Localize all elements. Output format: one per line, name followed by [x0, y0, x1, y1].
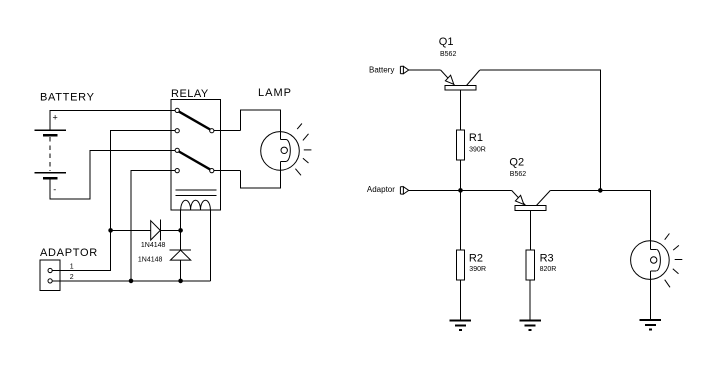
svg-text:Adaptor: Adaptor	[367, 185, 395, 194]
wire relay C2 to lamp	[214, 170, 241, 172]
svg-text:390R: 390R	[469, 147, 486, 154]
wire battery plus to relay T1	[50, 110, 175, 130]
resistor R1	[457, 130, 465, 160]
wire Q1 base / R1 / node	[460, 90, 462, 250]
wire relay C1 to lamp	[214, 130, 241, 132]
ground (R3)	[519, 321, 541, 331]
junction dot rail	[598, 188, 603, 193]
wire lamp LA2 to ground	[649, 271, 651, 320]
svg-text:LAMP: LAMP	[258, 87, 292, 99]
wire Q2 base	[529, 210, 531, 250]
relay K1 box	[171, 100, 221, 210]
ground (R2)	[450, 321, 472, 331]
svg-text:+: +	[53, 113, 58, 123]
resistor R3	[526, 250, 534, 280]
lamp LA2 rays	[665, 234, 683, 288]
lamp LA1 rays	[295, 124, 311, 176]
wire relay T2 to adaptor pin 1	[52, 131, 175, 271]
relay coil	[181, 200, 211, 210]
wire R3 to ground	[529, 280, 531, 321]
wire node to diode D1	[111, 229, 151, 231]
junction dot	[108, 228, 113, 233]
lamp LA2	[631, 241, 670, 280]
resistor R2	[456, 250, 464, 280]
wire battery minus to relay T3	[50, 150, 175, 199]
svg-text:820R: 820R	[540, 266, 557, 273]
wire relay T4 to bottom rail	[131, 171, 175, 281]
relay contact C1	[210, 129, 214, 133]
wire Q2 collector to rail node	[550, 189, 600, 191]
junction dot node adaptor/R1	[458, 188, 463, 193]
svg-text:RELAY: RELAY	[171, 88, 209, 100]
adaptor connector J1	[40, 260, 60, 291]
relay terminal T2	[175, 129, 179, 133]
junction dot	[178, 279, 183, 284]
svg-text:-: -	[53, 185, 56, 195]
svg-text:390R: 390R	[469, 266, 486, 273]
battery BT1	[35, 113, 66, 195]
relay terminal T1	[175, 108, 179, 112]
port symbol Battery	[400, 66, 408, 73]
wire Battery port to Q1 emitter	[409, 69, 441, 71]
svg-text:R2: R2	[469, 253, 483, 265]
relay switch arm 2	[179, 152, 210, 170]
svg-text:R3: R3	[540, 253, 554, 265]
svg-text:Q2: Q2	[509, 157, 524, 169]
svg-text:BATTERY: BATTERY	[40, 92, 95, 104]
wire Q1 collector to right rail	[480, 70, 601, 190]
port symbol Adaptor	[400, 187, 408, 194]
wire coil right lead	[209, 210, 211, 281]
relay terminal T3	[175, 148, 179, 152]
ground (LA2)	[640, 320, 662, 330]
svg-text:R1: R1	[469, 132, 483, 144]
svg-text:2: 2	[70, 274, 74, 281]
junction dot	[178, 228, 183, 233]
relay terminal T4	[175, 169, 179, 173]
wire R2 to ground	[459, 280, 461, 321]
svg-text:Q1: Q1	[439, 36, 454, 48]
junction dot	[129, 279, 134, 284]
svg-text:1N4148: 1N4148	[141, 242, 166, 249]
svg-text:B562: B562	[440, 51, 456, 58]
wire adaptor pin 2 bottom rail	[52, 280, 210, 282]
wire rail node to lamp	[600, 190, 650, 249]
transistor Q1	[441, 70, 480, 90]
svg-text:1N4148: 1N4148	[138, 256, 163, 263]
diode D1 1N4148	[151, 220, 181, 241]
transistor Q2	[512, 190, 551, 210]
svg-text:B562: B562	[510, 171, 526, 178]
relay contact C2	[210, 169, 214, 173]
filament notch	[280, 139, 286, 141]
wire coil left lead	[180, 210, 182, 250]
bulb circle	[261, 132, 300, 171]
svg-text:Battery: Battery	[369, 65, 394, 74]
lamp LA1 body	[241, 110, 300, 188]
wire Adaptor port to Q2 emitter	[409, 189, 512, 191]
svg-text:1: 1	[70, 263, 74, 270]
relay core lines	[175, 189, 216, 191]
relay switch arm 1	[179, 112, 210, 130]
diode D2 1N4148	[169, 250, 191, 281]
svg-text:ADAPTOR: ADAPTOR	[40, 247, 98, 259]
